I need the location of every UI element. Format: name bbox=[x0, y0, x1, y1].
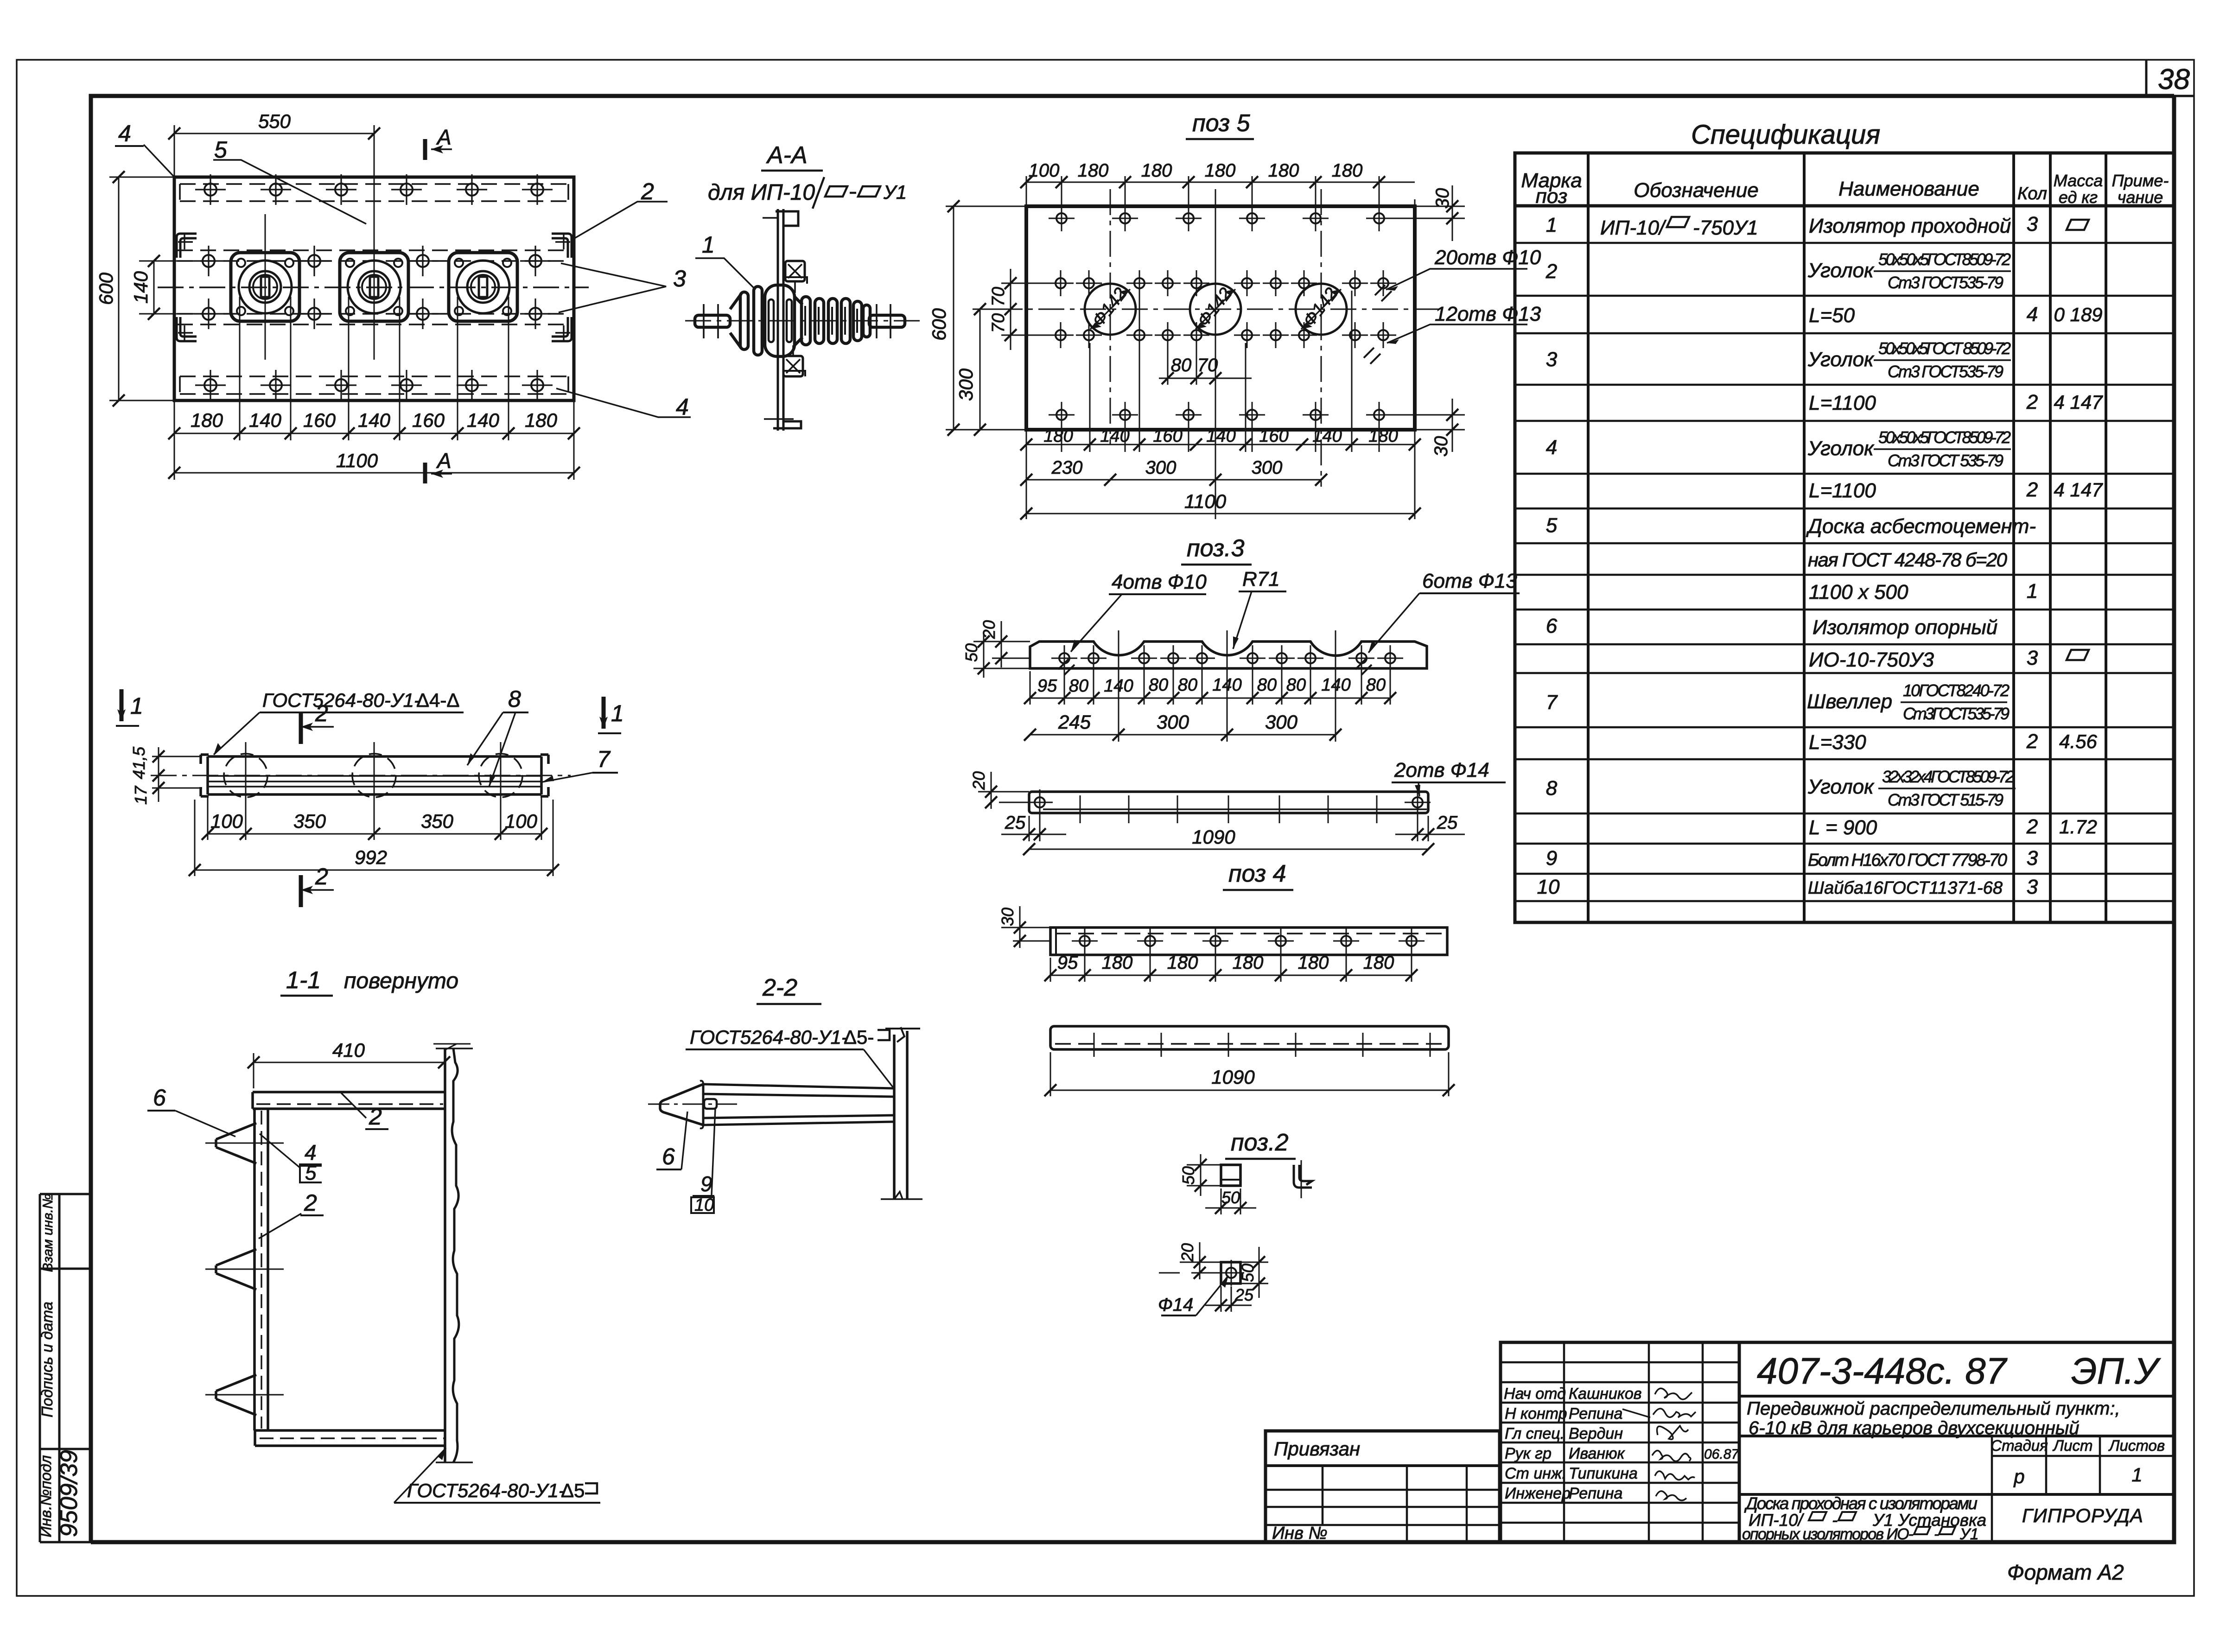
svg-text:L = 900: L = 900 bbox=[1809, 816, 1877, 839]
svg-text:повернуто: повернуто bbox=[344, 969, 458, 993]
svg-text:3: 3 bbox=[2027, 847, 2038, 870]
svg-text:4 147: 4 147 bbox=[2054, 479, 2103, 501]
signature rows bbox=[1504, 1385, 1739, 1502]
poz5 vertical centerlines bbox=[1110, 189, 1111, 445]
panel plate outline bbox=[174, 177, 574, 400]
svg-text:25: 25 bbox=[1437, 813, 1458, 833]
svg-text:10: 10 bbox=[694, 1195, 714, 1215]
svg-text:А: А bbox=[436, 125, 452, 149]
poz3 otv slashes bbox=[1058, 659, 1075, 675]
top angle strip dashed bbox=[180, 184, 568, 201]
svg-text:50: 50 bbox=[1221, 1188, 1240, 1207]
svg-text:2: 2 bbox=[304, 1190, 317, 1216]
poz4 dim row 95 180x5 bbox=[1050, 948, 1412, 982]
right ribs bbox=[801, 297, 810, 345]
svg-text:180: 180 bbox=[1268, 160, 1299, 181]
svg-text:5: 5 bbox=[1546, 514, 1558, 537]
svg-text:230: 230 bbox=[1051, 457, 1083, 478]
svg-text:25: 25 bbox=[1234, 1285, 1254, 1304]
gusset 3 bbox=[216, 1375, 256, 1415]
centerline A-A bbox=[685, 320, 920, 322]
svg-text:50х50х5ГОСТ8509-72: 50х50х5ГОСТ8509-72 bbox=[1878, 428, 2011, 447]
dim 550 top bbox=[174, 125, 374, 177]
leader 4 top-left bbox=[144, 145, 175, 178]
svg-text:20отв Ф10: 20отв Ф10 bbox=[1434, 246, 1541, 269]
svg-text:Ст3 ГОСТ535-79: Ст3 ГОСТ535-79 bbox=[1888, 273, 2003, 292]
svg-text:Наименование: Наименование bbox=[1838, 178, 1979, 200]
poz2 dim 50 vertical bbox=[1187, 1154, 1221, 1196]
beam 2-2 bbox=[703, 1084, 894, 1125]
corner angle piece top-left bbox=[177, 234, 197, 258]
leader 5 bbox=[213, 160, 366, 224]
svg-text:180: 180 bbox=[1043, 426, 1073, 446]
svg-text:поз: поз bbox=[1536, 185, 1568, 208]
svg-text:ГИПРОРУДА: ГИПРОРУДА bbox=[2022, 1505, 2143, 1526]
svg-text:Инв.№подл: Инв.№подл bbox=[37, 1455, 54, 1537]
svg-text:2: 2 bbox=[369, 1104, 382, 1130]
svg-text:550: 550 bbox=[258, 110, 291, 132]
leader 20 otv F10 bbox=[1386, 269, 1527, 290]
dim 600 left bbox=[109, 177, 174, 400]
poz4 dim 30 bbox=[1001, 906, 1050, 948]
svg-text:20: 20 bbox=[1178, 1243, 1197, 1262]
svg-text:1: 1 bbox=[2027, 580, 2038, 603]
svg-text:Вердин: Вердин bbox=[1569, 1425, 1623, 1442]
svg-text:180: 180 bbox=[191, 409, 223, 431]
svg-text:Взам инв.№: Взам инв.№ bbox=[40, 1194, 56, 1272]
svg-text:Ст3ГОСТ535-79: Ст3ГОСТ535-79 bbox=[1903, 704, 2010, 723]
svg-text:2: 2 bbox=[2026, 478, 2038, 501]
svg-text:32х32х4ГОСТ8509-72: 32х32х4ГОСТ8509-72 bbox=[1882, 767, 2015, 786]
svg-text:L=330: L=330 bbox=[1809, 731, 1866, 754]
post 2-2 bbox=[894, 1031, 907, 1199]
svg-text:р: р bbox=[2013, 1466, 2024, 1487]
poz5 horizontal centerline bbox=[997, 309, 1439, 310]
svg-text:50: 50 bbox=[1238, 1264, 1257, 1282]
svg-text:ИП-10/: ИП-10/ bbox=[1600, 216, 1666, 239]
poz2 dim 25 bbox=[1205, 1286, 1252, 1312]
svg-text:2: 2 bbox=[2026, 730, 2038, 753]
svg-text:0 189: 0 189 bbox=[2054, 304, 2102, 325]
bar dim 1090 bbox=[1029, 849, 1428, 850]
svg-text:ед кг: ед кг bbox=[2059, 188, 2098, 207]
svg-text:38: 38 bbox=[2158, 64, 2190, 95]
left stud rod bbox=[695, 315, 730, 327]
beam centerline bbox=[151, 775, 571, 776]
top channel bar 1-1 bbox=[253, 1092, 445, 1109]
svg-text:У1: У1 bbox=[1959, 1525, 1979, 1543]
poz3 strip outline with notches bbox=[1030, 642, 1427, 668]
bottom angle strip dashed bbox=[180, 376, 568, 394]
svg-text:Уголок: Уголок bbox=[1807, 259, 1875, 282]
svg-text:50х50х5ГОСТ8509-72: 50х50х5ГОСТ8509-72 bbox=[1878, 250, 2011, 269]
svg-text:1100 х 500: 1100 х 500 bbox=[1809, 581, 1908, 604]
svg-text:А-А: А-А bbox=[766, 142, 808, 169]
svg-text:992: 992 bbox=[355, 846, 387, 868]
section mark 1 right bbox=[602, 697, 606, 729]
dim 1100 bbox=[174, 472, 574, 474]
poz5 board outline bbox=[1026, 206, 1415, 430]
svg-text:300: 300 bbox=[955, 368, 977, 401]
centerline 2-2 bbox=[648, 1104, 737, 1105]
poz5 dim row 230/300/300 bbox=[1026, 479, 1321, 481]
svg-text:8: 8 bbox=[1546, 777, 1558, 800]
svg-text:350: 350 bbox=[421, 810, 454, 832]
svg-text:ная ГОСТ 4248-78 б=20: ная ГОСТ 4248-78 б=20 bbox=[1808, 549, 2008, 571]
svg-text:180: 180 bbox=[1141, 160, 1172, 181]
poz5 dim 30 bottom right bbox=[1379, 399, 1465, 452]
plate bottom foot bbox=[773, 412, 801, 428]
right neck bbox=[795, 297, 802, 345]
poz3 dims 20/50 left bbox=[973, 621, 1030, 678]
svg-text:3: 3 bbox=[2027, 213, 2038, 235]
poz4 holes bbox=[1072, 928, 1098, 954]
svg-text:95: 95 bbox=[1037, 676, 1057, 696]
right stud rod bbox=[869, 315, 905, 327]
poz3 dim row 245 300 300 bbox=[1119, 630, 1336, 742]
svg-text:140: 140 bbox=[1312, 426, 1342, 446]
svg-text:Приме-: Приме- bbox=[2112, 171, 2169, 190]
svg-text:У1: У1 bbox=[883, 181, 907, 203]
svg-text:Ст3 ГОСТ 515-79: Ст3 ГОСТ 515-79 bbox=[1888, 790, 2003, 809]
dim 992 bbox=[195, 800, 553, 876]
svg-text:поз 5: поз 5 bbox=[1192, 110, 1251, 137]
svg-text:600: 600 bbox=[95, 272, 117, 305]
insulator positions dashed circles bbox=[224, 754, 267, 797]
extension lines below panel bbox=[174, 297, 574, 480]
insulator flange 3 bbox=[449, 253, 517, 321]
svg-text:180: 180 bbox=[1167, 953, 1198, 973]
left stamp cells bbox=[40, 1194, 91, 1542]
svg-text:L=1100: L=1100 bbox=[1809, 392, 1876, 414]
poz2 angle profile icon bbox=[1294, 1165, 1312, 1188]
leader 2 right bbox=[573, 202, 668, 239]
svg-text:1.72: 1.72 bbox=[2059, 816, 2097, 838]
poz5 dim 1100 bbox=[1026, 513, 1415, 515]
svg-text:300: 300 bbox=[1145, 457, 1177, 478]
svg-text:30: 30 bbox=[1432, 188, 1453, 209]
top clamp block bbox=[785, 261, 807, 293]
svg-text:9: 9 bbox=[700, 1172, 712, 1196]
svg-text:1: 1 bbox=[130, 693, 143, 719]
svg-text:407-3-448с. 87: 407-3-448с. 87 bbox=[1757, 1350, 2008, 1391]
svg-text:30: 30 bbox=[998, 908, 1017, 926]
svg-text:20: 20 bbox=[979, 620, 999, 639]
gusset 1 bbox=[216, 1123, 256, 1163]
poz5 dim 80 70 middle bbox=[1159, 343, 1252, 385]
svg-text:3: 3 bbox=[673, 266, 686, 292]
svg-text:4: 4 bbox=[118, 121, 131, 146]
corner angle piece top-right bbox=[552, 234, 572, 258]
svg-text:Инв №: Инв № bbox=[1272, 1524, 1328, 1543]
poz5 middle hole rows bbox=[1048, 270, 1396, 348]
flag 4/5 bbox=[260, 1134, 300, 1168]
svg-text:3: 3 bbox=[2027, 876, 2038, 898]
svg-text:опорных изоляторов ИО-: опорных изоляторов ИО- bbox=[1742, 1525, 1914, 1543]
svg-text:140: 140 bbox=[1206, 426, 1235, 446]
svg-text:6: 6 bbox=[153, 1085, 166, 1111]
svg-text:поз 4: поз 4 bbox=[1228, 860, 1286, 887]
svg-text:160: 160 bbox=[303, 409, 336, 431]
svg-text:поз.3: поз.3 bbox=[1187, 535, 1245, 562]
svg-text:ГОСТ5264-80-У1-: ГОСТ5264-80-У1- bbox=[262, 689, 420, 711]
svg-text:4.56: 4.56 bbox=[2059, 731, 2097, 752]
svg-text:50: 50 bbox=[962, 643, 981, 662]
middle strip dashed lines bbox=[177, 250, 571, 324]
svg-text:1-1: 1-1 bbox=[286, 967, 321, 994]
svg-text:Изолятор проходной: Изолятор проходной bbox=[1809, 215, 2011, 237]
svg-text:3: 3 bbox=[1546, 348, 1558, 371]
bar outline bbox=[1029, 792, 1428, 813]
row 1: IP-10 insulator bbox=[1546, 213, 2038, 239]
poz3 holes bbox=[1051, 645, 1403, 671]
svg-text:3: 3 bbox=[2027, 647, 2038, 669]
poz5 dim 300 left bbox=[973, 309, 997, 430]
svg-text:Подпись и дата: Подпись и дата bbox=[38, 1302, 56, 1417]
svg-text:300: 300 bbox=[1252, 457, 1283, 478]
section mark 2 top bbox=[299, 712, 303, 744]
svg-text:Болт Н16х70 ГОСТ 7798-70: Болт Н16х70 ГОСТ 7798-70 bbox=[1808, 851, 2007, 870]
svg-text:поз.2: поз.2 bbox=[1231, 1129, 1289, 1156]
svg-text:Масса: Масса bbox=[2054, 171, 2103, 190]
svg-text:Рук гр: Рук гр bbox=[1505, 1445, 1552, 1462]
svg-text:9: 9 bbox=[1546, 847, 1557, 870]
svg-text:R71: R71 bbox=[1242, 568, 1280, 591]
leader 12 otv F13 bbox=[1387, 324, 1527, 343]
center dome bbox=[765, 285, 795, 356]
svg-text:Δ5-: Δ5- bbox=[844, 1026, 874, 1048]
svg-text:1: 1 bbox=[1546, 214, 1557, 236]
sheet number cell 38 bbox=[2145, 60, 2148, 96]
svg-text:30: 30 bbox=[1431, 436, 1451, 457]
plate top clip bbox=[776, 211, 798, 226]
corner angle piece bottom-right bbox=[552, 317, 572, 341]
svg-text:7: 7 bbox=[1546, 691, 1558, 714]
svg-text:180: 180 bbox=[1332, 160, 1363, 181]
right end cap bbox=[541, 755, 548, 796]
svg-text:Уголок: Уголок bbox=[1807, 348, 1875, 371]
svg-text:2: 2 bbox=[641, 178, 654, 204]
poz2 plate with hole bbox=[1221, 1262, 1240, 1283]
svg-text:140: 140 bbox=[249, 409, 282, 431]
svg-text:Ф14: Ф14 bbox=[1158, 1295, 1193, 1315]
svg-text:6: 6 bbox=[662, 1144, 675, 1169]
section mark A top bbox=[423, 139, 427, 160]
svg-text:1100: 1100 bbox=[1184, 490, 1227, 512]
svg-text:10ГОСТ8240-72: 10ГОСТ8240-72 bbox=[1903, 681, 2010, 700]
svg-text:для ИП-10: для ИП-10 bbox=[708, 180, 815, 205]
svg-text:Изолятор опорный: Изолятор опорный bbox=[1813, 616, 1997, 639]
svg-text:80: 80 bbox=[1257, 675, 1277, 695]
svg-text:Ст3 ГОСТ535-79: Ст3 ГОСТ535-79 bbox=[1888, 362, 2003, 381]
svg-text:9509/39: 9509/39 bbox=[56, 1450, 83, 1537]
svg-text:Репина: Репина bbox=[1569, 1405, 1622, 1423]
svg-text:140: 140 bbox=[358, 409, 391, 431]
svg-text:1100: 1100 bbox=[336, 450, 378, 471]
bar dim 25 right bbox=[1395, 809, 1465, 841]
svg-text:180: 180 bbox=[1233, 953, 1264, 973]
signature table grid bbox=[1501, 1342, 1739, 1542]
svg-text:1: 1 bbox=[702, 232, 715, 258]
svg-text:180: 180 bbox=[1078, 160, 1109, 181]
svg-text:Обозначение: Обозначение bbox=[1634, 179, 1759, 202]
svg-text:Репина: Репина bbox=[1569, 1485, 1622, 1502]
svg-text:1: 1 bbox=[611, 700, 624, 726]
svg-text:6-10 кВ для карьеров двухсекци: 6-10 кВ для карьеров двухсекционный bbox=[1749, 1418, 2080, 1438]
table grid bbox=[1515, 153, 2174, 922]
svg-text:600: 600 bbox=[928, 308, 950, 341]
poz5 big hole F142 no.2 bbox=[1190, 284, 1241, 335]
svg-text:ИО-10-750У3: ИО-10-750У3 bbox=[1809, 648, 1934, 671]
svg-text:Спецификация: Спецификация bbox=[1691, 120, 1880, 150]
svg-text:80: 80 bbox=[1069, 676, 1088, 696]
middle band holes bbox=[193, 246, 551, 329]
right wavy plate 1-1 bbox=[444, 1048, 446, 1462]
poz5 dim 600 left bbox=[946, 206, 1026, 430]
leader 2 mid (1-1) bbox=[259, 1214, 301, 1239]
poz5 bottom hole row bbox=[1049, 402, 1392, 428]
svg-text:Уголок: Уголок bbox=[1807, 437, 1875, 460]
leader 4 bottom-right bbox=[556, 388, 691, 417]
svg-text:2: 2 bbox=[1545, 260, 1557, 283]
flag 9/10 (2-2) bbox=[712, 1109, 715, 1195]
svg-text:180: 180 bbox=[1368, 426, 1398, 446]
svg-text:70: 70 bbox=[989, 287, 1008, 306]
svg-text:Н контр: Н контр bbox=[1505, 1405, 1567, 1423]
svg-text:95: 95 bbox=[1057, 953, 1078, 973]
left petticoat discs bbox=[740, 292, 748, 349]
svg-text:2отв Ф14: 2отв Ф14 bbox=[1394, 759, 1489, 782]
svg-text:70: 70 bbox=[1197, 355, 1218, 375]
svg-text:4: 4 bbox=[2027, 303, 2038, 326]
svg-text:Передвижной распределительный: Передвижной распределительный пункт:, bbox=[1747, 1398, 2120, 1419]
svg-text:80: 80 bbox=[1286, 675, 1306, 695]
svg-text:140: 140 bbox=[467, 409, 500, 431]
bottom channel bar 1-1 bbox=[255, 1430, 446, 1446]
svg-text:Доска асбестоцемент-: Доска асбестоцемент- bbox=[1806, 515, 2036, 538]
svg-text:300: 300 bbox=[1265, 711, 1298, 733]
poz5 big hole F142 no.3 bbox=[1296, 284, 1347, 335]
poz2 dim 20 bbox=[1159, 1242, 1221, 1279]
signature scribbles bbox=[1622, 1388, 1696, 1500]
insulator body A-A bbox=[695, 285, 905, 356]
svg-text:Кол: Кол bbox=[2017, 184, 2047, 203]
dim 410 bbox=[254, 1044, 471, 1088]
left end cap bbox=[201, 755, 209, 796]
svg-text:А: А bbox=[436, 449, 452, 473]
plain bar ticks bbox=[1094, 1033, 1430, 1057]
svg-text:20: 20 bbox=[969, 771, 988, 790]
bar tick marks bbox=[1080, 795, 1377, 823]
insulator flange 1 bbox=[231, 214, 299, 360]
poz5 top hole row bbox=[1049, 205, 1392, 231]
svg-text:160: 160 bbox=[1259, 426, 1288, 446]
svg-text:6отв Ф13: 6отв Ф13 bbox=[1422, 570, 1517, 592]
svg-text:1: 1 bbox=[2131, 1464, 2142, 1486]
corner angle piece bottom-left bbox=[177, 317, 197, 341]
svg-text:Привязан: Привязан bbox=[1274, 1438, 1360, 1460]
top row holes bbox=[195, 174, 553, 205]
svg-text:10: 10 bbox=[1537, 876, 1560, 898]
svg-text:L=1100: L=1100 bbox=[1809, 479, 1876, 502]
title block right box bbox=[1739, 1342, 2174, 1542]
svg-text:80: 80 bbox=[1178, 675, 1197, 695]
privyazan box bbox=[1266, 1431, 1500, 1542]
poz5 bottom dim row 180/140/160... bbox=[1026, 291, 1415, 519]
svg-text:100: 100 bbox=[1029, 160, 1060, 181]
svg-text:2-2: 2-2 bbox=[762, 974, 797, 1001]
panel centerline bbox=[158, 286, 589, 288]
poz5 big hole F142 no.1 bbox=[1085, 284, 1136, 335]
plain bar outline bbox=[1050, 1026, 1449, 1049]
svg-text:80: 80 bbox=[1149, 675, 1168, 695]
poz2 square end view bbox=[1221, 1165, 1240, 1186]
svg-text:-750У1: -750У1 bbox=[1693, 216, 1758, 239]
svg-text:4отв Ф10: 4отв Ф10 bbox=[1112, 571, 1207, 593]
svg-text:350: 350 bbox=[293, 810, 326, 832]
bottom row holes bbox=[195, 370, 553, 400]
svg-text:2: 2 bbox=[2026, 391, 2038, 413]
svg-text:12отв Ф13: 12отв Ф13 bbox=[1435, 303, 1541, 325]
mounting plate (vertical) bbox=[778, 209, 783, 431]
svg-text:80: 80 bbox=[1366, 675, 1386, 695]
svg-text:100: 100 bbox=[210, 810, 243, 832]
svg-text:чание: чание bbox=[2118, 188, 2163, 207]
svg-text:ГОСТ5264-80-У1-: ГОСТ5264-80-У1- bbox=[690, 1026, 848, 1048]
bar holes bbox=[1027, 789, 1053, 815]
svg-text:Гл спец.: Гл спец. bbox=[1505, 1425, 1565, 1442]
svg-text:L=50: L=50 bbox=[1809, 304, 1855, 327]
svg-text:Шайба16ГОСТ11371-68: Шайба16ГОСТ11371-68 bbox=[1808, 878, 2003, 898]
frame top line extension to outer border bbox=[2174, 95, 2194, 97]
svg-text:Инженер: Инженер bbox=[1505, 1485, 1571, 1502]
svg-text:8: 8 bbox=[508, 686, 521, 712]
svg-text:50: 50 bbox=[1179, 1166, 1198, 1185]
svg-text:Кашников: Кашников bbox=[1569, 1385, 1642, 1403]
left upright bar 1-1 bbox=[254, 1109, 268, 1430]
leader 2 top (1-1) bbox=[341, 1093, 366, 1118]
svg-text:2: 2 bbox=[315, 864, 328, 890]
svg-text:Нач отд: Нач отд bbox=[1504, 1385, 1566, 1403]
section mark A bottom bbox=[423, 463, 427, 483]
svg-text:4 147: 4 147 bbox=[2054, 391, 2103, 413]
bar dim 20 left bbox=[978, 772, 1029, 809]
svg-text:180: 180 bbox=[1102, 953, 1133, 973]
svg-text:17: 17 bbox=[131, 785, 150, 805]
bar dim 25 left bbox=[1001, 809, 1066, 841]
svg-text:Листов: Листов bbox=[2108, 1437, 2165, 1454]
svg-text:180: 180 bbox=[525, 409, 558, 431]
svg-text:410: 410 bbox=[332, 1039, 365, 1061]
dims 100 350 350 100 bbox=[208, 797, 541, 840]
svg-text:160: 160 bbox=[412, 409, 445, 431]
table header bbox=[1521, 169, 2169, 208]
channel beam bbox=[201, 755, 548, 796]
svg-text:25: 25 bbox=[1005, 813, 1026, 833]
svg-text:70: 70 bbox=[989, 313, 1008, 333]
svg-text:4: 4 bbox=[1546, 436, 1557, 459]
svg-text:2: 2 bbox=[315, 700, 328, 726]
svg-text:140: 140 bbox=[130, 271, 152, 304]
insulator cone 2-2 bbox=[660, 1084, 703, 1125]
svg-text:06.87: 06.87 bbox=[1704, 1447, 1739, 1462]
poz3 dim row 95 80 140 ... bbox=[1030, 667, 1390, 705]
leader 3 right bbox=[559, 263, 666, 312]
svg-text:Δ5: Δ5 bbox=[561, 1480, 585, 1501]
poz2 dim 50 horizontal bbox=[1205, 1188, 1256, 1214]
svg-text:245: 245 bbox=[1058, 711, 1091, 733]
svg-text:140: 140 bbox=[1100, 426, 1129, 446]
